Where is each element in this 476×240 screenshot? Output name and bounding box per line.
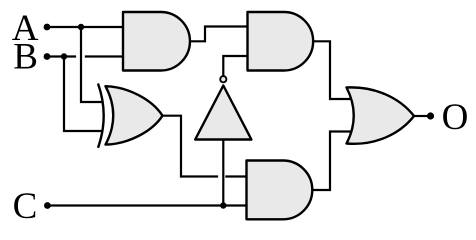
svg-text:B: B [13,37,38,78]
svg-text:O: O [442,97,469,138]
svg-text:C: C [13,186,38,227]
